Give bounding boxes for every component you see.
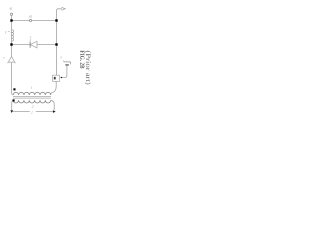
wire: right rail node B to node D	[56, 21, 58, 45]
arrow OUT (open arrowhead, top right)	[62, 7, 66, 10]
wire: secondary left end down to bottom rail	[12, 100, 14, 110]
wire: left rail node A to inductor	[11, 21, 13, 30]
node C (junction dot, left middle)	[10, 43, 12, 45]
device Q1 (triangle element on left rail)	[8, 56, 14, 62]
terminal circle on top rail	[30, 19, 32, 21]
wire: left rail node C down to triangle device	[11, 45, 13, 57]
polarity dot secondary	[13, 99, 15, 101]
node A (junction dot, left top)	[10, 19, 12, 21]
control box U1	[53, 75, 60, 81]
label 7 (left of triangle device)	[3, 57, 5, 59]
wire: box bottom down, curve left to primary right end	[51, 81, 57, 95]
polarity dot primary	[13, 88, 15, 90]
label 11 (above transformer primary)	[31, 86, 32, 88]
transformer T1 core (two lines)	[13, 95, 51, 97]
label 12 (below transformer secondary)	[32, 106, 34, 108]
label 31 (above capacitor)	[60, 56, 62, 58]
wire: top rail from node A to node B	[12, 20, 57, 22]
wire: right rail corner and output arrow	[57, 9, 62, 21]
arrow down (current direction, bottom left)	[10, 110, 13, 113]
wire: mid rail diode to node D	[37, 44, 57, 46]
caption (Prior art) (rotated)	[85, 51, 91, 85]
wire: secondary right end down to bottom rail	[51, 100, 55, 110]
arrow into box (filled, pointing left)	[60, 77, 62, 79]
wire: left rail from input terminal down to node A	[11, 15, 13, 20]
node B (junction dot, right top)	[55, 19, 57, 21]
wire: right rail node D down to control box	[56, 45, 58, 76]
wire: left rail inductor to node C	[11, 41, 13, 45]
label 1 (inside box)	[54, 77, 56, 80]
inductor L1 (coil on left rail)	[12, 30, 14, 41]
label L (left of inductor)	[5, 31, 7, 33]
label 5 (above diode)	[30, 36, 32, 38]
transformer T1 primary winding (top, bumps up)	[13, 92, 51, 95]
background	[0, 0, 96, 120]
wire: mid rail node C to diode D1	[12, 44, 30, 46]
diode D1 (pointing left, on mid rail)	[29, 42, 31, 48]
node D (junction dot, right middle)	[55, 43, 57, 45]
label 41 (top-left reference numeral)	[9, 8, 12, 10]
capacitor C1 (plates, right side)	[64, 62, 71, 65]
terminal IN (open circle, top-left)	[10, 13, 12, 15]
transformer T1 secondary winding (bottom, bumps down)	[13, 100, 51, 103]
wire: left rail triangle down to transformer primary	[12, 62, 14, 95]
wire: capacitor down and left into box (control input)	[62, 66, 67, 78]
label 2 (in bottom rail gap)	[31, 111, 33, 113]
caption FIG. 2B (rotated)	[80, 50, 84, 68]
wire: bottom rail left segment	[12, 111, 30, 113]
arrow right (current direction, bottom right)	[53, 110, 56, 113]
wire: bottom rail right segment	[36, 111, 53, 113]
label 42 (above circle on top rail)	[29, 15, 32, 17]
